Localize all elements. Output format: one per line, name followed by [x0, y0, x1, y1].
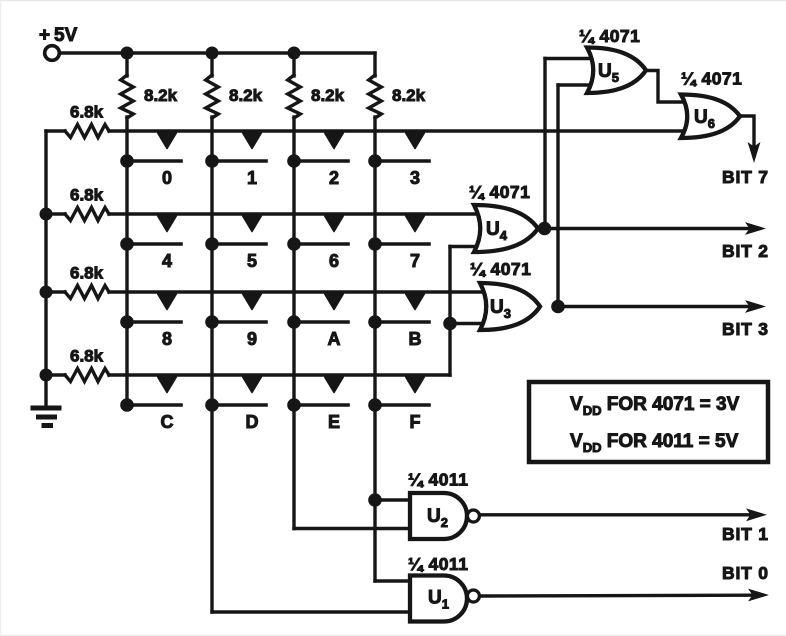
- svg-text:BIT 7: BIT 7: [722, 167, 769, 187]
- svg-text:B: B: [409, 329, 422, 349]
- svg-text:4: 4: [162, 251, 172, 271]
- svg-text:3: 3: [410, 168, 420, 188]
- svg-text:5V: 5V: [54, 25, 78, 46]
- svg-text:VDD FOR 4011 = 5V: VDD FOR 4011 = 5V: [570, 431, 739, 455]
- svg-text:D: D: [246, 412, 259, 432]
- svg-text:1: 1: [247, 168, 257, 188]
- svg-text:9: 9: [247, 329, 257, 349]
- svg-text:8.2k: 8.2k: [311, 86, 345, 105]
- svg-text:+: +: [39, 25, 50, 46]
- svg-text:6: 6: [329, 251, 339, 271]
- svg-text:¼ 4011: ¼ 4011: [408, 554, 468, 574]
- svg-text:6.8k: 6.8k: [70, 186, 104, 205]
- svg-text:8.2k: 8.2k: [144, 86, 178, 105]
- svg-text:8.2k: 8.2k: [229, 86, 263, 105]
- svg-text:BIT 3: BIT 3: [722, 319, 769, 339]
- svg-text:VDD FOR 4071 = 3V: VDD FOR 4071 = 3V: [570, 394, 740, 418]
- svg-text:BIT 2: BIT 2: [722, 241, 769, 261]
- svg-text:¼ 4071: ¼ 4071: [681, 69, 742, 89]
- svg-text:8.2k: 8.2k: [392, 86, 426, 105]
- svg-text:BIT 0: BIT 0: [722, 563, 769, 583]
- svg-text:2: 2: [329, 168, 339, 188]
- svg-text:6.8k: 6.8k: [70, 103, 104, 122]
- svg-text:A: A: [328, 329, 341, 349]
- svg-text:E: E: [328, 412, 340, 432]
- svg-text:F: F: [410, 412, 421, 432]
- svg-text:C: C: [161, 412, 174, 432]
- svg-text:6.8k: 6.8k: [70, 264, 104, 283]
- svg-text:7: 7: [410, 251, 420, 271]
- svg-text:¼ 4071: ¼ 4071: [579, 26, 640, 46]
- svg-text:¼ 4071: ¼ 4071: [469, 182, 530, 202]
- svg-text:8: 8: [162, 329, 172, 349]
- svg-text:5: 5: [247, 251, 257, 271]
- svg-text:6.8k: 6.8k: [70, 347, 104, 366]
- svg-text:¼ 4011: ¼ 4011: [408, 470, 468, 490]
- svg-text:¼ 4071: ¼ 4071: [470, 259, 531, 279]
- svg-text:BIT 1: BIT 1: [722, 524, 769, 544]
- svg-text:0: 0: [162, 168, 172, 188]
